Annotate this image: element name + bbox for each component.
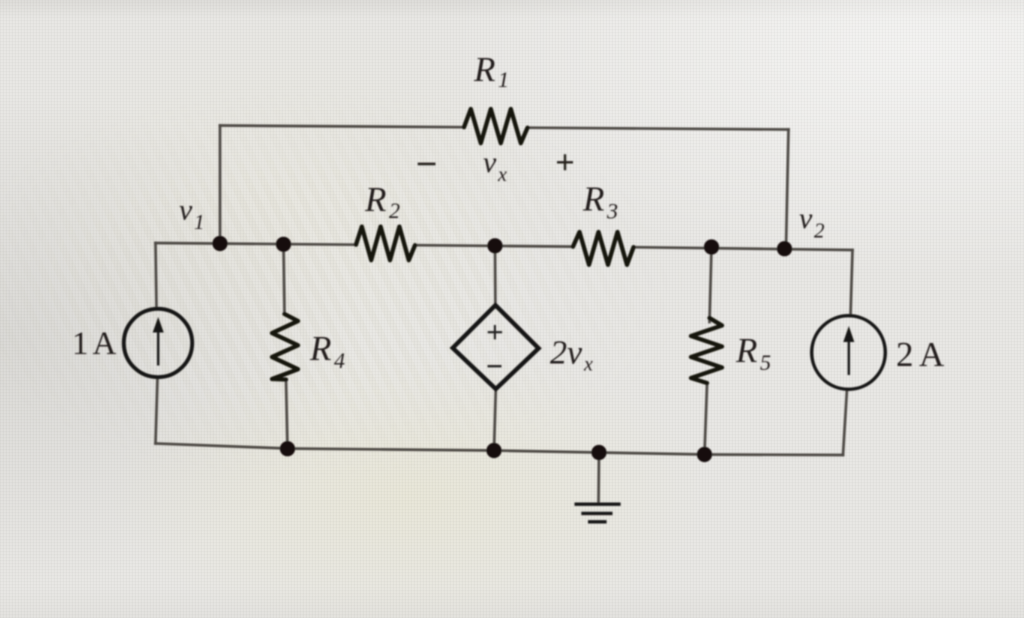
svg-text:R: R <box>582 180 604 219</box>
svg-text:3: 3 <box>606 199 618 224</box>
svg-text:4: 4 <box>334 348 345 373</box>
svg-text:R: R <box>309 329 331 368</box>
svg-text:1: 1 <box>194 210 205 234</box>
svg-text:x: x <box>497 164 507 186</box>
svg-text:A: A <box>919 335 945 374</box>
svg-text:R: R <box>473 50 495 89</box>
svg-text:v: v <box>179 194 193 227</box>
svg-text:1: 1 <box>72 326 89 362</box>
svg-text:2: 2 <box>896 335 914 374</box>
svg-text:R: R <box>364 180 386 219</box>
svg-text:R: R <box>735 331 757 370</box>
svg-text:2: 2 <box>389 198 400 223</box>
svg-text:2v: 2v <box>550 335 583 372</box>
svg-text:A: A <box>93 326 117 362</box>
svg-text:x: x <box>583 354 593 376</box>
svg-text:v: v <box>483 146 497 179</box>
svg-text:1: 1 <box>498 67 509 92</box>
svg-text:v: v <box>799 202 813 235</box>
svg-text:2: 2 <box>814 219 825 243</box>
svg-text:5: 5 <box>760 350 771 375</box>
